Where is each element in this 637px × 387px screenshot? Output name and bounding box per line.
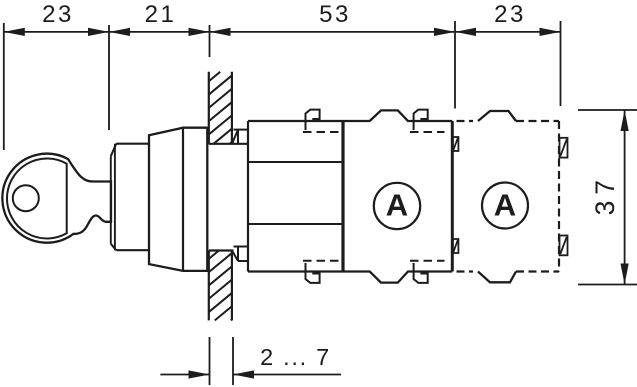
svg-text:2 ... 7: 2 ... 7 [260, 344, 331, 370]
svg-text:A: A [494, 188, 516, 223]
svg-text:37: 37 [590, 174, 620, 215]
svg-text:23: 23 [42, 1, 74, 28]
svg-text:53: 53 [319, 1, 351, 28]
svg-text:23: 23 [494, 1, 526, 28]
svg-text:A: A [386, 188, 408, 223]
svg-text:21: 21 [145, 1, 177, 28]
